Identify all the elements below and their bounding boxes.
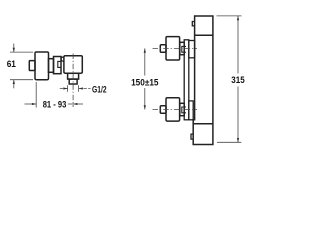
150 arrowhead down: [144, 105, 146, 109]
315 dim line top: [237, 16, 239, 74]
G1/2 arrowhead right: [63, 87, 67, 89]
G1/2 arrow tail right: [79, 88, 91, 90]
315 extension bottom: [217, 141, 241, 143]
body small block: [54, 57, 62, 74]
connector C detail: [58, 61, 61, 67]
top centreline: [153, 47, 198, 49]
150 arrowhead up: [144, 48, 146, 52]
top knob neck: [180, 42, 184, 54]
top notch: [192, 22, 194, 26]
svg-text:81 - 93: 81 - 93: [43, 100, 67, 111]
81-93 dim line right: [68, 103, 83, 105]
bottom knob cap: [160, 106, 166, 114]
outlet fitting narrow: [69, 79, 77, 84]
81-93 extension tick: [35, 82, 37, 108]
bottom knob: [166, 98, 180, 121]
315 extension top: [217, 15, 242, 17]
outlet elbow block: [64, 56, 82, 73]
top knob cap: [160, 45, 166, 53]
61 arrowhead up: [13, 80, 15, 84]
top C detail: [182, 46, 186, 52]
top flange: [189, 41, 195, 58]
top cap divider: [195, 34, 213, 36]
81-93 arrowhead right: [32, 103, 36, 105]
61 extension top: [10, 51, 33, 53]
handle front tab: [29, 61, 35, 71]
neck: [49, 59, 54, 73]
G1/2 arrowhead left: [79, 87, 83, 89]
svg-text:G1/2: G1/2: [92, 85, 107, 96]
81-93 dim line left: [25, 103, 37, 105]
column between flanges: [184, 40, 189, 120]
handle block: [35, 52, 49, 80]
top knob: [166, 37, 180, 60]
svg-text:150±15: 150±15: [131, 77, 159, 88]
bottom cap divider: [193, 123, 213, 125]
outlet fitting wide: [68, 73, 79, 79]
81-93 arrowhead left (at centreline): [73, 103, 77, 105]
150 dim line bottom: [144, 88, 146, 110]
svg-text:61: 61: [7, 59, 17, 70]
left view dimension graphics: [10, 44, 91, 108]
G1/2 tick left: [67, 85, 69, 92]
elbow centreline: [72, 54, 74, 108]
right view: front view of thermostatic bar: [160, 16, 213, 145]
bar body: [193, 16, 213, 145]
61 extension bottom: [10, 79, 33, 81]
elbow notch: [61, 57, 64, 61]
bottom notch: [191, 134, 193, 139]
bottom flange: [189, 101, 193, 120]
315 arrowhead up: [237, 16, 239, 20]
G1/2 arrow tail left: [60, 88, 68, 90]
right view dimension graphics: [145, 16, 242, 142]
bottom C detail: [182, 107, 186, 113]
bottom centreline: [153, 109, 198, 111]
svg-text:315: 315: [231, 75, 245, 86]
G1/2 tick right: [78, 85, 80, 92]
61 dim line top: [13, 44, 15, 53]
315 arrowhead down: [237, 138, 239, 142]
150 dim line top: [144, 48, 146, 75]
bottom knob neck: [180, 103, 184, 115]
61 dim line bottom: [13, 80, 15, 89]
315 dim line bottom: [237, 87, 239, 143]
61 arrowhead down: [13, 48, 15, 52]
